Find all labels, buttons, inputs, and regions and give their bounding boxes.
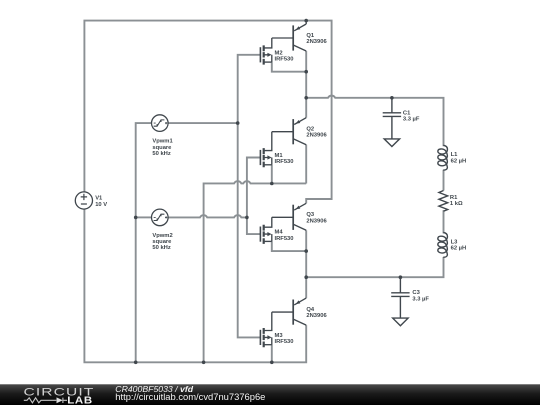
svg-text:V1: V1 (95, 196, 103, 202)
svg-text:Q3: Q3 (306, 212, 315, 218)
svg-text:square: square (152, 145, 172, 151)
svg-text:M1: M1 (275, 153, 284, 159)
svg-text:C1: C1 (403, 111, 411, 117)
svg-text:square: square (152, 239, 172, 245)
svg-text:IRF530: IRF530 (275, 236, 294, 242)
svg-text:50 kHz: 50 kHz (152, 151, 170, 157)
svg-text:R1: R1 (450, 195, 458, 201)
svg-text:Vpwm1: Vpwm1 (152, 139, 173, 145)
svg-text:M4: M4 (275, 230, 284, 236)
svg-text:10 V: 10 V (95, 202, 107, 208)
svg-text:1 kΩ: 1 kΩ (450, 201, 463, 207)
svg-text:2N3906: 2N3906 (306, 133, 327, 139)
svg-text:C3: C3 (412, 290, 420, 296)
svg-text:2N3906: 2N3906 (306, 218, 327, 224)
svg-text:Q2: Q2 (306, 127, 314, 133)
svg-text:2N3906: 2N3906 (306, 313, 327, 319)
svg-text:50 kHz: 50 kHz (152, 245, 170, 251)
svg-text:62 µH: 62 µH (451, 246, 467, 252)
svg-text:Q4: Q4 (306, 307, 315, 313)
svg-text:http://circuitlab.com/cvd7nu73: http://circuitlab.com/cvd7nu7376p6e (115, 391, 265, 402)
svg-text:Vpwm2: Vpwm2 (152, 233, 172, 239)
svg-text:LAB: LAB (67, 395, 93, 405)
svg-text:3.3 µF: 3.3 µF (412, 296, 429, 302)
svg-text:M3: M3 (275, 333, 284, 339)
svg-text:2N3906: 2N3906 (306, 39, 327, 45)
svg-text:IRF530: IRF530 (275, 339, 294, 345)
svg-text:IRF530: IRF530 (275, 57, 294, 63)
svg-text:L1: L1 (451, 152, 459, 158)
svg-text:3.3 µF: 3.3 µF (403, 117, 420, 123)
svg-text:62 µH: 62 µH (451, 158, 467, 164)
svg-text:Q1: Q1 (306, 33, 315, 39)
svg-text:M2: M2 (275, 50, 283, 56)
svg-text:L3: L3 (451, 239, 459, 245)
svg-text:IRF530: IRF530 (275, 159, 294, 165)
